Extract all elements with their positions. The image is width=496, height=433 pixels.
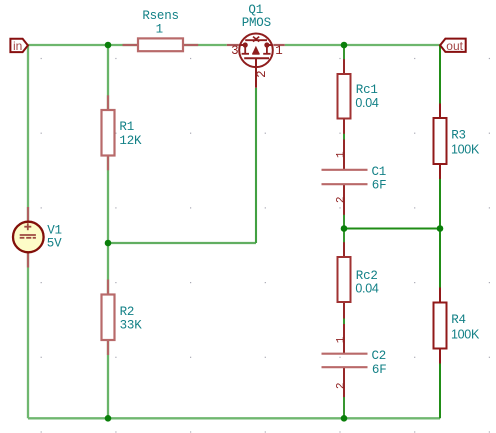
- svg-text:R2: R2: [120, 305, 135, 319]
- resistor Rsens: [123, 9, 199, 51]
- junction at C1/Rc2: [341, 225, 348, 232]
- wire gate link: [108, 242, 256, 244]
- junction at Rc1 top: [341, 42, 348, 49]
- svg-text:100K: 100K: [451, 143, 480, 157]
- voltage source V1: [13, 207, 62, 268]
- svg-text:0.04: 0.04: [355, 282, 378, 296]
- capacitor C1: [322, 140, 387, 215]
- wire mid-right rail: [344, 228, 440, 230]
- resistor R2: [102, 280, 143, 356]
- svg-text:V1: V1: [47, 224, 62, 238]
- svg-text:R4: R4: [451, 313, 466, 327]
- svg-text:2: 2: [336, 383, 348, 389]
- wire bottom rail: [28, 417, 440, 419]
- resistor R1: [102, 95, 143, 170]
- junction at R1 top: [105, 42, 112, 49]
- wire Rc1/C1 column upper: [343, 45, 345, 169]
- svg-text:1: 1: [336, 336, 348, 343]
- svg-text:1: 1: [275, 44, 282, 58]
- resistor Rc1: [338, 59, 379, 134]
- svg-text:C2: C2: [372, 349, 387, 363]
- port out: [440, 39, 466, 53]
- junction at R3/R4: [437, 225, 444, 232]
- svg-text:2: 2: [336, 197, 348, 203]
- junction at R1/R2 mid: [105, 240, 112, 247]
- junction at C2 bottom: [341, 415, 348, 422]
- grid dots (decorative): [41, 58, 490, 433]
- wire left rail: [27, 44, 29, 418]
- transistor Q1: [227, 3, 285, 88]
- svg-text:6F: 6F: [372, 363, 387, 377]
- svg-text:12K: 12K: [119, 134, 142, 148]
- svg-text:Rsens: Rsens: [142, 9, 179, 23]
- svg-text:1: 1: [156, 23, 163, 37]
- wire gate vertical: [255, 88, 257, 243]
- svg-text:R1: R1: [119, 120, 134, 134]
- capacitor C2: [322, 324, 387, 397]
- wire top rail left of Q1: [28, 44, 227, 46]
- svg-text:33K: 33K: [120, 319, 143, 333]
- junction at R2 bottom: [105, 415, 112, 422]
- wire C2 to bottom rail: [343, 368, 345, 418]
- svg-text:6F: 6F: [372, 179, 387, 193]
- svg-text:3: 3: [231, 44, 238, 58]
- wire top rail right of Q1: [285, 44, 440, 46]
- svg-text:in: in: [13, 39, 22, 53]
- svg-text:R3: R3: [451, 128, 466, 142]
- wire right rail: [439, 45, 441, 418]
- svg-text:1: 1: [336, 151, 348, 158]
- resistor R3: [434, 104, 480, 180]
- svg-text:0.04: 0.04: [355, 96, 378, 110]
- wire C1 to Rc2: [343, 185, 345, 352]
- resistor Rc2: [338, 242, 379, 318]
- svg-text:PMOS: PMOS: [242, 16, 271, 30]
- svg-text:C1: C1: [372, 165, 387, 179]
- svg-text:out: out: [446, 39, 463, 53]
- svg-text:100K: 100K: [451, 327, 480, 341]
- svg-text:5V: 5V: [47, 237, 62, 251]
- resistor R4: [434, 288, 480, 364]
- wire R1/R2 rail: [107, 45, 109, 418]
- svg-text:2: 2: [255, 71, 269, 78]
- port in: [10, 39, 28, 53]
